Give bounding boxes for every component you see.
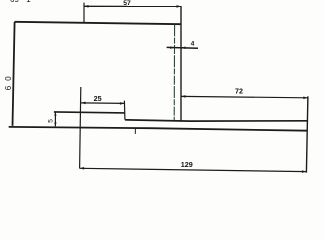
arrowheads of dimension 5 <box>54 112 56 116</box>
left edge of part (60 side) <box>13 22 15 126</box>
dimension line 72 <box>181 96 308 97</box>
svg-text:4: 4 <box>191 41 195 48</box>
svg-text:1: 1 <box>26 0 31 4</box>
arrowheads of dimension 72 <box>181 95 186 98</box>
arrowheads of dimension 4 <box>170 46 175 49</box>
dimension line 25 <box>81 102 124 105</box>
arrowheads of dimension 57 <box>84 5 89 8</box>
bottom edge of part (full width) <box>9 127 308 131</box>
small tick below bottom edge <box>134 129 136 135</box>
svg-text:69: 69 <box>10 0 19 4</box>
svg-text:129: 129 <box>181 160 193 169</box>
arrowheads of dimension 25 <box>81 102 86 105</box>
top edge of part <box>15 22 182 24</box>
inner vertical edge at x=174.5 (4 wide slot) <box>173 24 175 120</box>
shared extension line x=80 (25 left / 129 left) <box>80 87 81 168</box>
middle horizontal edge to right side <box>125 120 308 121</box>
svg-text:72: 72 <box>235 87 243 96</box>
svg-text:5: 5 <box>48 119 55 123</box>
dimension line 129 (bottom) <box>80 168 307 171</box>
extension line right of 25 / step vertical <box>123 101 126 120</box>
dimension tick 5 (vertical) <box>54 112 56 126</box>
dimension line 4 <box>167 46 198 49</box>
svg-text:25: 25 <box>94 94 102 103</box>
dimension line 57 (top) <box>84 5 181 7</box>
arrowheads of dimension 129 <box>80 167 85 170</box>
cropped page-number text top-left <box>10 0 31 4</box>
right vertical edge at x=181 <box>180 6 182 121</box>
extension line left of dimension 57 <box>83 3 85 23</box>
svg-text:60: 60 <box>4 71 13 90</box>
right edge of part <box>306 96 308 172</box>
step edge (middle left) <box>54 112 125 113</box>
svg-text:57: 57 <box>123 0 131 7</box>
